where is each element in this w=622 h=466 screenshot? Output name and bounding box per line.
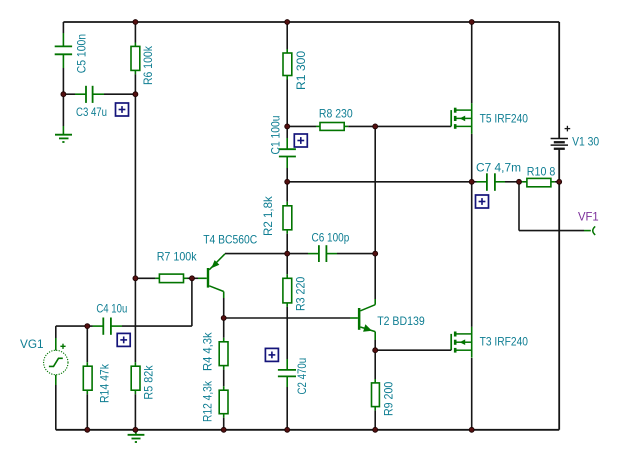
svg-text:C3 47u: C3 47u <box>76 105 107 119</box>
svg-text:R4 4,3k: R4 4,3k <box>201 331 215 371</box>
svg-text:R6 100k: R6 100k <box>141 45 155 85</box>
svg-text:VF1: VF1 <box>578 210 599 224</box>
svg-text:C4 10u: C4 10u <box>96 302 127 316</box>
svg-text:C2 470u: C2 470u <box>295 358 309 395</box>
svg-text:R7 100k: R7 100k <box>157 250 198 264</box>
svg-text:R12 4,3k: R12 4,3k <box>201 380 215 422</box>
svg-text:R9 200: R9 200 <box>382 381 396 416</box>
svg-text:C5 100n: C5 100n <box>75 34 89 73</box>
svg-text:R5 82k: R5 82k <box>142 365 156 400</box>
svg-text:R8 230: R8 230 <box>319 107 353 121</box>
svg-text:V1 30: V1 30 <box>572 134 599 148</box>
svg-text:R14 47k: R14 47k <box>98 363 112 403</box>
svg-text:C1 100u: C1 100u <box>269 116 283 155</box>
svg-text:R1 300: R1 300 <box>294 50 308 90</box>
svg-text:R10 8: R10 8 <box>527 165 556 179</box>
svg-text:T2 BD139: T2 BD139 <box>377 314 425 328</box>
svg-text:VG1: VG1 <box>20 337 44 351</box>
svg-text:R2 1,8k: R2 1,8k <box>261 195 275 236</box>
svg-text:C7 4,7m: C7 4,7m <box>476 161 521 175</box>
svg-text:T3 IRF240: T3 IRF240 <box>480 335 529 349</box>
svg-text:T5 IRF240: T5 IRF240 <box>480 111 529 125</box>
svg-text:C6 100p: C6 100p <box>312 231 350 245</box>
svg-text:R3 220: R3 220 <box>294 276 308 311</box>
svg-text:T4 BC560C: T4 BC560C <box>203 233 257 247</box>
